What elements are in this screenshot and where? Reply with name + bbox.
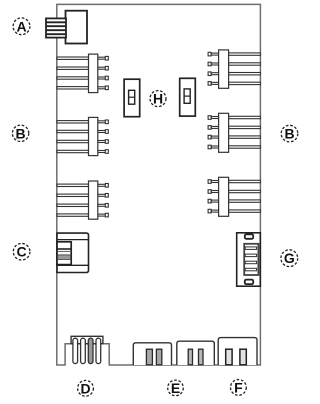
svg-text:F: F bbox=[234, 379, 243, 395]
svg-text:C: C bbox=[17, 244, 27, 260]
svg-text:B: B bbox=[284, 126, 294, 142]
svg-text:H: H bbox=[153, 91, 163, 107]
svg-text:A: A bbox=[16, 18, 26, 34]
svg-text:B: B bbox=[16, 125, 26, 141]
svg-text:G: G bbox=[284, 250, 295, 266]
svg-text:D: D bbox=[80, 380, 90, 396]
svg-text:E: E bbox=[171, 380, 180, 396]
